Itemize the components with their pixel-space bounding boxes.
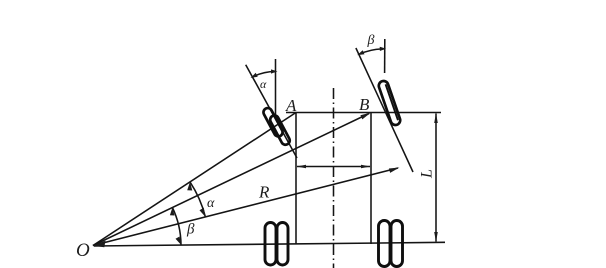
node arrowhead left wheel arc end bbox=[251, 73, 258, 78]
wheel W2 right front steered bbox=[378, 80, 402, 127]
wire line O to A bbox=[93, 113, 296, 246]
svg-text:A: A bbox=[285, 96, 297, 115]
node arrowhead right wheel arc end bbox=[357, 50, 364, 55]
node arrowhead alpha arc upper end bbox=[187, 182, 192, 191]
node beta arc at O bbox=[172, 208, 181, 245]
node L dim arrow top bbox=[434, 113, 438, 123]
wire rear axle baseline from O bbox=[94, 242, 445, 246]
wire right wheel plane line bbox=[356, 48, 413, 172]
wheel W3 left rear dual tire bbox=[265, 223, 288, 266]
node arrowhead alpha arc lower end bbox=[200, 208, 206, 217]
node arrowhead at B bbox=[360, 113, 371, 120]
node alpha arc at left wheel bbox=[252, 72, 275, 78]
wire right wheel vertical reference bbox=[384, 39, 386, 73]
node arrowhead beta arc upper end bbox=[170, 208, 175, 216]
node arrowhead R line tip bbox=[389, 168, 400, 173]
node track dim arrow left bbox=[297, 165, 307, 169]
node arrowhead beta arc lower end bbox=[176, 237, 182, 245]
svg-text:α: α bbox=[207, 196, 215, 211]
node L dim arrow bottom bbox=[434, 232, 438, 242]
node track dim arrow right bbox=[361, 165, 371, 169]
svg-text:β: β bbox=[367, 33, 375, 48]
svg-text:β: β bbox=[186, 222, 195, 238]
node alpha arc at O bbox=[190, 182, 205, 217]
node front axle line AB bbox=[286, 112, 441, 114]
wire body right side bbox=[370, 113, 372, 245]
svg-text:α: α bbox=[260, 77, 267, 91]
node beta arc at right wheel bbox=[359, 49, 384, 54]
wire track dimension line bbox=[297, 166, 370, 168]
wire left wheel plane line bbox=[246, 65, 297, 158]
wheel W4 right rear dual tire bbox=[379, 221, 403, 267]
wire left wheel vertical reference bbox=[275, 59, 277, 117]
wire L dimension line bbox=[435, 114, 437, 242]
wheel W1 left front steered bbox=[262, 105, 291, 147]
svg-text:O: O bbox=[76, 240, 90, 261]
node arrowhead at O vertex bbox=[93, 241, 106, 248]
svg-text:L: L bbox=[419, 169, 436, 179]
wire line O to B bbox=[93, 114, 369, 246]
svg-text:R: R bbox=[258, 183, 270, 202]
wire R line bbox=[93, 168, 398, 246]
wire center line dash dot bbox=[333, 88, 335, 268]
svg-text:B: B bbox=[359, 95, 370, 114]
wire body left side bbox=[295, 113, 297, 245]
